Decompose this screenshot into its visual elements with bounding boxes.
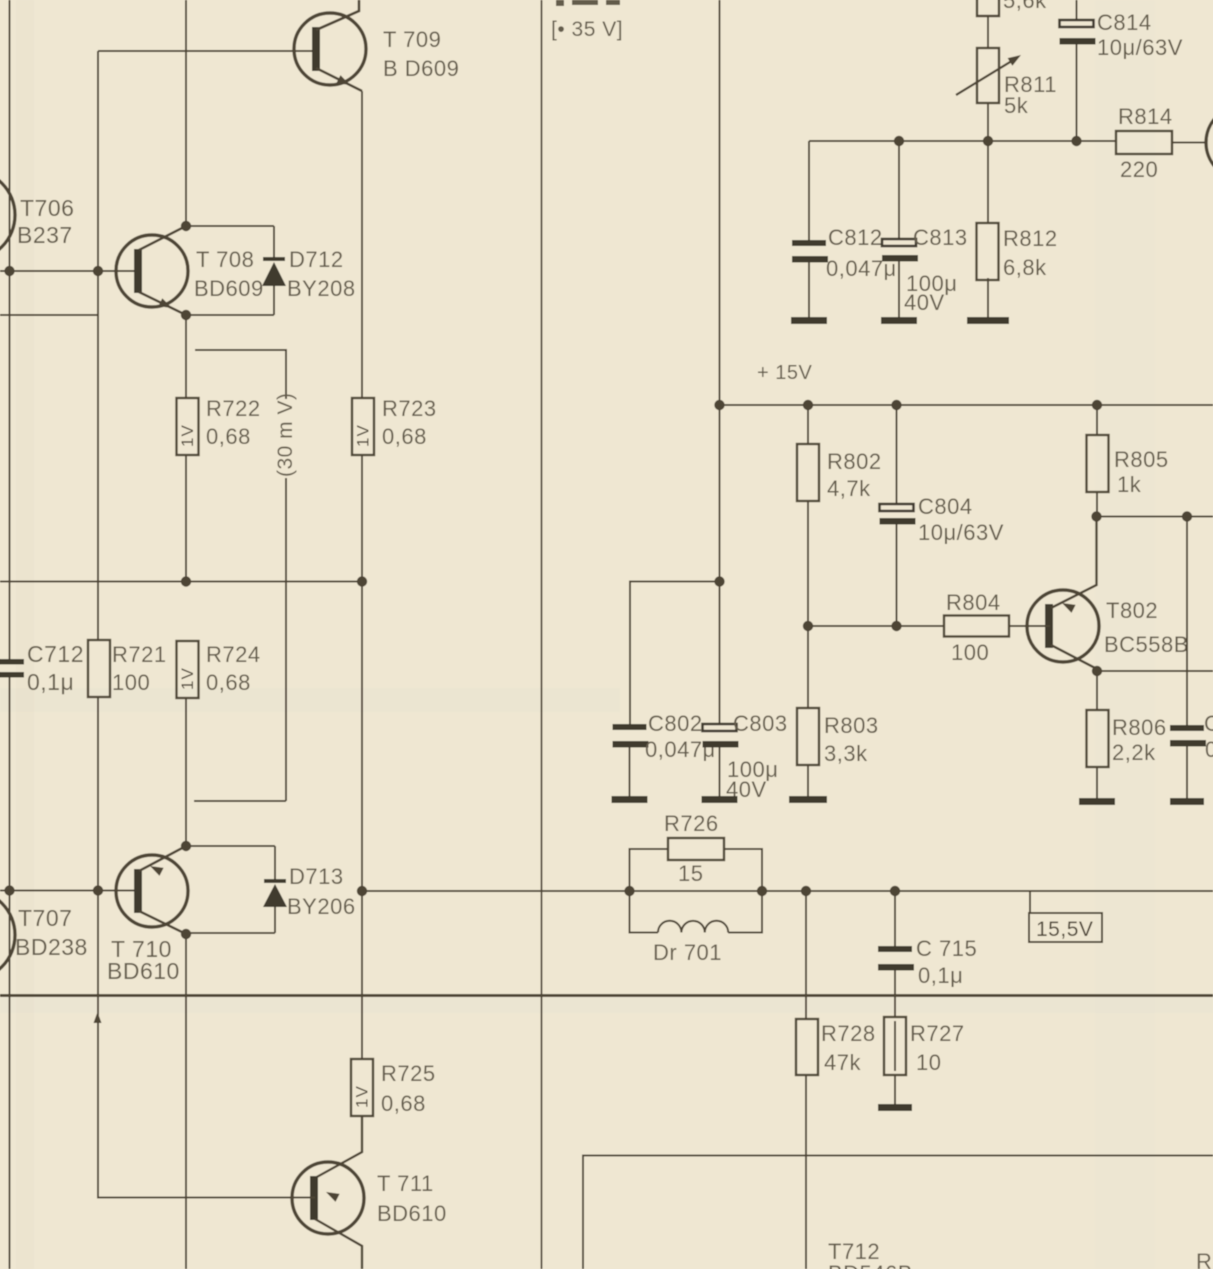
wire x=719 to jog <box>719 405 721 582</box>
label T708 <box>194 247 264 301</box>
wire D713 bottom link <box>186 932 275 934</box>
svg-text:BD238: BD238 <box>15 934 88 960</box>
label Dr701 <box>653 940 722 965</box>
wire D712 top link <box>186 226 274 257</box>
resistor R722 <box>177 398 199 455</box>
wire T711 emitter <box>315 1192 362 1269</box>
ground C802 <box>612 796 648 803</box>
svg-text:0,047μ: 0,047μ <box>645 737 716 762</box>
capacitor C802 <box>613 724 649 796</box>
svg-text:BY206: BY206 <box>287 894 356 919</box>
wire T709 base from x=98 corner <box>98 50 317 52</box>
wire R724 lower lead <box>185 698 187 846</box>
label R803 <box>824 713 879 766</box>
svg-text:R804: R804 <box>946 590 1001 615</box>
node junction x=895 y=891 <box>890 886 900 896</box>
wire junction line y=141 <box>809 140 1116 142</box>
node junction x=719 y=581 <box>714 576 724 586</box>
svg-text:BD546B: BD546B <box>828 1261 913 1269</box>
svg-text:B237: B237 <box>17 222 73 248</box>
wire T710 collector down x=186 <box>185 934 187 1269</box>
node T710 collector junction <box>181 929 191 939</box>
svg-text:C814: C814 <box>1097 10 1152 35</box>
transistor T711 <box>292 1162 364 1234</box>
svg-text:220: 220 <box>1120 157 1158 182</box>
node 15.5V label box <box>1029 913 1102 942</box>
wire x=362 column mid <box>361 582 363 1060</box>
wire R812 leads <box>987 141 989 317</box>
svg-text:R724: R724 <box>206 642 261 667</box>
ground C805 <box>1170 798 1204 805</box>
label R802 <box>827 449 882 501</box>
svg-text:15,5V: 15,5V <box>1036 918 1093 941</box>
label R814 <box>1118 104 1173 182</box>
svg-text:C712: C712 <box>27 641 84 667</box>
label R806 <box>1112 715 1167 765</box>
label R727 <box>910 1021 965 1075</box>
transistor T801 (partial at edge) <box>1206 106 1213 180</box>
wire main line y=891 <box>362 890 1213 892</box>
svg-text:0,68: 0,68 <box>381 1091 426 1116</box>
wire jog to C802 <box>630 582 720 725</box>
svg-text:R803: R803 <box>824 713 879 738</box>
svg-text:2,2k: 2,2k <box>1112 740 1156 765</box>
wire R723 column upper <box>361 91 363 398</box>
wire R814 to T801 <box>1172 142 1206 144</box>
resistor R811 variable <box>956 48 1021 103</box>
label R724 <box>206 642 261 695</box>
resistor R804 <box>944 616 1009 637</box>
svg-text:5,6k: 5,6k <box>1003 0 1047 13</box>
svg-text:T707: T707 <box>18 905 72 931</box>
capacitor C715 <box>878 891 914 1017</box>
node junction x=808 y=405 <box>803 400 813 410</box>
wire T802 base <box>1009 625 1050 627</box>
label C804 <box>918 494 1004 545</box>
svg-text:100: 100 <box>951 640 989 665</box>
node junction x=186 y=581 <box>181 576 191 586</box>
label T710 <box>107 936 180 984</box>
svg-text:6,8k: 6,8k <box>1003 255 1047 280</box>
svg-text:R812: R812 <box>1003 226 1058 251</box>
capacitor C804 <box>880 405 916 626</box>
node junction x=362 y=581 <box>357 576 367 586</box>
svg-text:T 709: T 709 <box>383 27 441 52</box>
resistor R814 <box>1116 131 1172 154</box>
ground R803 <box>789 796 827 803</box>
label 5,6k cut <box>1003 0 1047 13</box>
resistor R724 <box>177 641 199 698</box>
wire T709 collector <box>316 0 359 30</box>
wire R727 lower lead <box>894 1075 896 1104</box>
svg-text:0,1μ: 0,1μ <box>918 963 963 988</box>
svg-text:0,68: 0,68 <box>382 424 427 449</box>
wire T709 emitter diagonal <box>316 68 362 91</box>
node junction x=362 y=891 <box>357 886 367 896</box>
ground R806 <box>1079 798 1115 805</box>
wire R726 right link <box>724 849 762 891</box>
svg-text:C802: C802 <box>648 711 703 736</box>
svg-text:R802: R802 <box>827 449 882 474</box>
svg-text:R: R <box>1196 1249 1212 1269</box>
node junction x=1076 y=141 <box>1071 136 1081 146</box>
wire R722 lower lead <box>185 455 187 582</box>
node junction x=988 y=141 <box>983 136 993 146</box>
svg-text:R805: R805 <box>1114 447 1169 472</box>
svg-text:BD609: BD609 <box>194 276 264 301</box>
wire T708 collector diagonal <box>139 226 186 250</box>
capacitor C813 <box>882 141 918 317</box>
wire T710 emitter diagonal <box>139 846 186 876</box>
transistor T710 <box>116 855 188 927</box>
svg-text:BY208: BY208 <box>287 276 356 301</box>
svg-text:R723: R723 <box>382 396 437 421</box>
svg-text:40V: 40V <box>904 290 945 315</box>
svg-text:R721: R721 <box>112 642 167 667</box>
wire T711 base line <box>97 1197 315 1199</box>
wire main rail y=995 <box>0 994 1213 997</box>
transistor T707 (partial at edge) <box>0 890 15 980</box>
svg-text:T 708: T 708 <box>196 247 254 272</box>
wire corner x=583 <box>583 1156 1213 1269</box>
svg-text:1V: 1V <box>353 1085 372 1108</box>
wire base row y=626 <box>808 625 944 627</box>
resistor R723 <box>352 398 374 455</box>
wire R721 column x=98 upper <box>97 51 99 640</box>
svg-text:0,68: 0,68 <box>206 670 251 695</box>
wire x=720 vertical <box>719 0 721 405</box>
node junction x=899 y=141 <box>894 136 904 146</box>
label +35V <box>551 18 623 41</box>
svg-text:T802: T802 <box>1106 598 1158 623</box>
svg-text:1k: 1k <box>1117 472 1142 497</box>
label D712 <box>287 247 356 301</box>
ground C812 <box>791 317 827 324</box>
resistor R806 <box>1087 710 1109 767</box>
label C813 <box>904 225 968 315</box>
node junction x=896 y=626 <box>891 621 901 631</box>
wire R723 lower lead <box>361 455 363 582</box>
capacitor C803 <box>703 724 739 796</box>
wire R803 upper lead <box>807 626 809 708</box>
label R805 <box>1114 447 1169 497</box>
svg-text:0,68: 0,68 <box>206 424 251 449</box>
resistor R721 <box>88 640 110 697</box>
label R726 <box>664 811 719 886</box>
wire line y=516 <box>1096 516 1213 518</box>
node junction x=808 y=626 <box>803 621 813 631</box>
wire D713 top link <box>186 846 275 879</box>
label C802 <box>645 711 716 762</box>
label R811 <box>1004 72 1057 118</box>
wire collector line y=671 <box>1097 670 1213 672</box>
label T711 <box>377 1171 447 1226</box>
wire R728 upper lead <box>805 891 807 1019</box>
wire R810-R811 link <box>987 16 989 48</box>
svg-text:0: 0 <box>1205 737 1213 762</box>
label T709 <box>383 27 459 81</box>
ground R727 <box>878 1104 912 1111</box>
label C812 <box>826 225 897 281</box>
node junction x=1097 y=405 <box>1092 400 1102 410</box>
capacitor C805 <box>1170 725 1206 798</box>
svg-text:D712: D712 <box>289 247 344 272</box>
wire left edge vertical x=9 <box>9 0 11 1269</box>
svg-text:47k: 47k <box>824 1050 861 1075</box>
node junction x=897 y=405 <box>891 400 901 410</box>
label C712 <box>27 641 84 695</box>
wire R728 lower lead <box>805 1075 807 1269</box>
svg-text:(30 m V): (30 m V) <box>274 392 297 477</box>
wire T710 collector diagonal <box>139 911 186 934</box>
node junction x=98 y=271 <box>93 266 103 276</box>
label (30 mV) rotated <box>274 392 297 477</box>
capacitor C814 <box>1060 0 1096 141</box>
resistor R727 <box>884 1017 906 1075</box>
resistor R728 <box>796 1019 818 1075</box>
node T708 collector junction <box>181 221 191 231</box>
label C805 cut <box>1204 711 1213 762</box>
diode D712 <box>262 257 286 315</box>
svg-text:R806: R806 <box>1112 715 1167 740</box>
ground C813 <box>881 317 917 324</box>
diode D713 <box>263 879 287 933</box>
svg-text:C: C <box>1204 711 1213 736</box>
wire base line y=271 <box>0 270 139 272</box>
wire +15V rail y=405 <box>719 404 1213 406</box>
transistor T709 <box>294 13 366 85</box>
node T802 collector junction <box>1092 666 1102 676</box>
svg-text:BD610: BD610 <box>377 1201 447 1226</box>
svg-text:+ 15V: + 15V <box>757 362 812 384</box>
svg-text:C803: C803 <box>733 711 788 736</box>
node junction x=806 y=891 <box>801 886 811 896</box>
svg-text:B D609: B D609 <box>383 56 459 81</box>
svg-text:BC558B: BC558B <box>1104 632 1189 657</box>
wire R726 left link <box>630 849 669 891</box>
label R722 <box>206 396 261 449</box>
label T707 <box>15 905 88 960</box>
node junction x=762 y=891 <box>757 886 767 896</box>
wire R806 upper lead <box>1096 671 1098 710</box>
node junction x=98 y=890 <box>93 885 103 895</box>
capacitor C712 <box>0 659 24 678</box>
svg-text:10μ/63V: 10μ/63V <box>918 520 1004 545</box>
resistor R810 partial top <box>977 0 999 16</box>
node junction x=1187 y=516 <box>1182 511 1192 521</box>
wire x=1187 column <box>1186 517 1188 726</box>
wire R725 to T711 collector <box>315 1116 362 1178</box>
wire R802 leads <box>807 405 809 626</box>
wire T708 emitter diagonal <box>139 292 186 315</box>
wire horizontal y=581 <box>0 581 364 583</box>
node junction x=9 y=890 <box>4 885 14 895</box>
svg-text:[• 35 V]: [• 35 V] <box>551 18 623 41</box>
svg-text:Dr 701: Dr 701 <box>653 940 722 965</box>
svg-text:100: 100 <box>112 670 150 695</box>
svg-text:3,3k: 3,3k <box>824 741 868 766</box>
wire x=719 to C803 <box>719 582 721 725</box>
svg-text:1V: 1V <box>178 667 197 690</box>
label R804 <box>946 590 1001 665</box>
svg-text:R727: R727 <box>910 1021 965 1046</box>
label C715 <box>916 936 977 988</box>
svg-text:R726: R726 <box>664 811 719 836</box>
svg-text:C812: C812 <box>828 225 883 250</box>
label R725 <box>381 1061 436 1116</box>
label R723 <box>382 396 437 449</box>
svg-text:C804: C804 <box>918 494 973 519</box>
label cut letter bottom right <box>1196 1249 1212 1269</box>
svg-text:15: 15 <box>678 861 703 886</box>
svg-text:0,1μ: 0,1μ <box>27 669 74 695</box>
transistor T708 <box>116 235 188 307</box>
inductor Dr701 <box>630 891 763 933</box>
capacitor C812 <box>792 141 828 317</box>
svg-text:BD610: BD610 <box>107 958 180 984</box>
svg-text:C 715: C 715 <box>916 936 977 961</box>
label R728 <box>821 1021 876 1075</box>
svg-text:10: 10 <box>916 1050 941 1075</box>
svg-text:T 711: T 711 <box>377 1171 434 1196</box>
ground C803 <box>702 796 738 803</box>
resistor R726 <box>668 838 724 860</box>
svg-text:R725: R725 <box>381 1061 436 1086</box>
transistor T706 (partial at edge) <box>0 170 15 260</box>
wire R721 lower lead <box>97 697 99 890</box>
wire R721 column to T711 base <box>97 890 99 1198</box>
label C814 <box>1097 10 1183 60</box>
wire 15,5V stub <box>1029 891 1031 913</box>
svg-text:1V: 1V <box>354 424 373 447</box>
label T802 <box>1104 598 1189 657</box>
label R721 <box>112 642 167 695</box>
svg-text:C813: C813 <box>913 225 968 250</box>
wire base line y=890 <box>0 890 139 892</box>
node T710 emitter junction <box>181 841 191 851</box>
svg-text:R728: R728 <box>821 1021 876 1046</box>
label C803 <box>726 711 788 802</box>
wire stub y=315 left <box>0 314 98 316</box>
transistor T802 <box>1027 590 1099 662</box>
resistor R725 <box>351 1059 373 1116</box>
node T708 emitter junction <box>181 310 191 320</box>
label T706 <box>17 195 74 248</box>
label D713 <box>287 864 356 919</box>
node junction x=1096 y=516 <box>1091 511 1101 521</box>
wire R806 lower lead <box>1096 766 1098 798</box>
svg-text:1V: 1V <box>178 424 197 447</box>
svg-text:4,7k: 4,7k <box>827 476 871 501</box>
wire D712 bottom link <box>186 314 274 316</box>
label cut top text <box>556 0 620 6</box>
node junction x=629 y=891 <box>624 886 634 896</box>
resistor R802 <box>797 444 819 501</box>
resistor R803 <box>797 708 819 765</box>
wire R811 lower lead <box>987 103 989 140</box>
wire T802 emitter <box>1051 517 1097 613</box>
label T712 <box>828 1239 913 1269</box>
svg-text:10μ/63V: 10μ/63V <box>1097 35 1183 60</box>
resistor R812 <box>977 223 999 280</box>
svg-text:R722: R722 <box>206 396 261 421</box>
svg-text:5k: 5k <box>1004 93 1029 118</box>
svg-text:D713: D713 <box>289 864 344 889</box>
wire sense bracket 30mV <box>194 350 286 801</box>
label R812 <box>1003 226 1058 280</box>
arrow on x=98 line <box>94 1012 102 1023</box>
node junction x=9 y=271 <box>4 266 14 276</box>
node junction x=719 y=405 <box>714 400 724 410</box>
label +15V <box>757 362 812 384</box>
wire section divider x=541 <box>541 0 543 1269</box>
wire T708 emitter down <box>185 315 187 398</box>
wire R803 lower lead <box>807 765 809 796</box>
ground R812 <box>967 317 1009 324</box>
wire x=186 top <box>185 0 187 226</box>
wire R805 leads <box>1096 405 1098 517</box>
wire T802 collector <box>1051 645 1097 669</box>
resistor R805 <box>1087 435 1109 492</box>
svg-text:R814: R814 <box>1118 104 1173 129</box>
svg-text:T706: T706 <box>20 195 74 221</box>
